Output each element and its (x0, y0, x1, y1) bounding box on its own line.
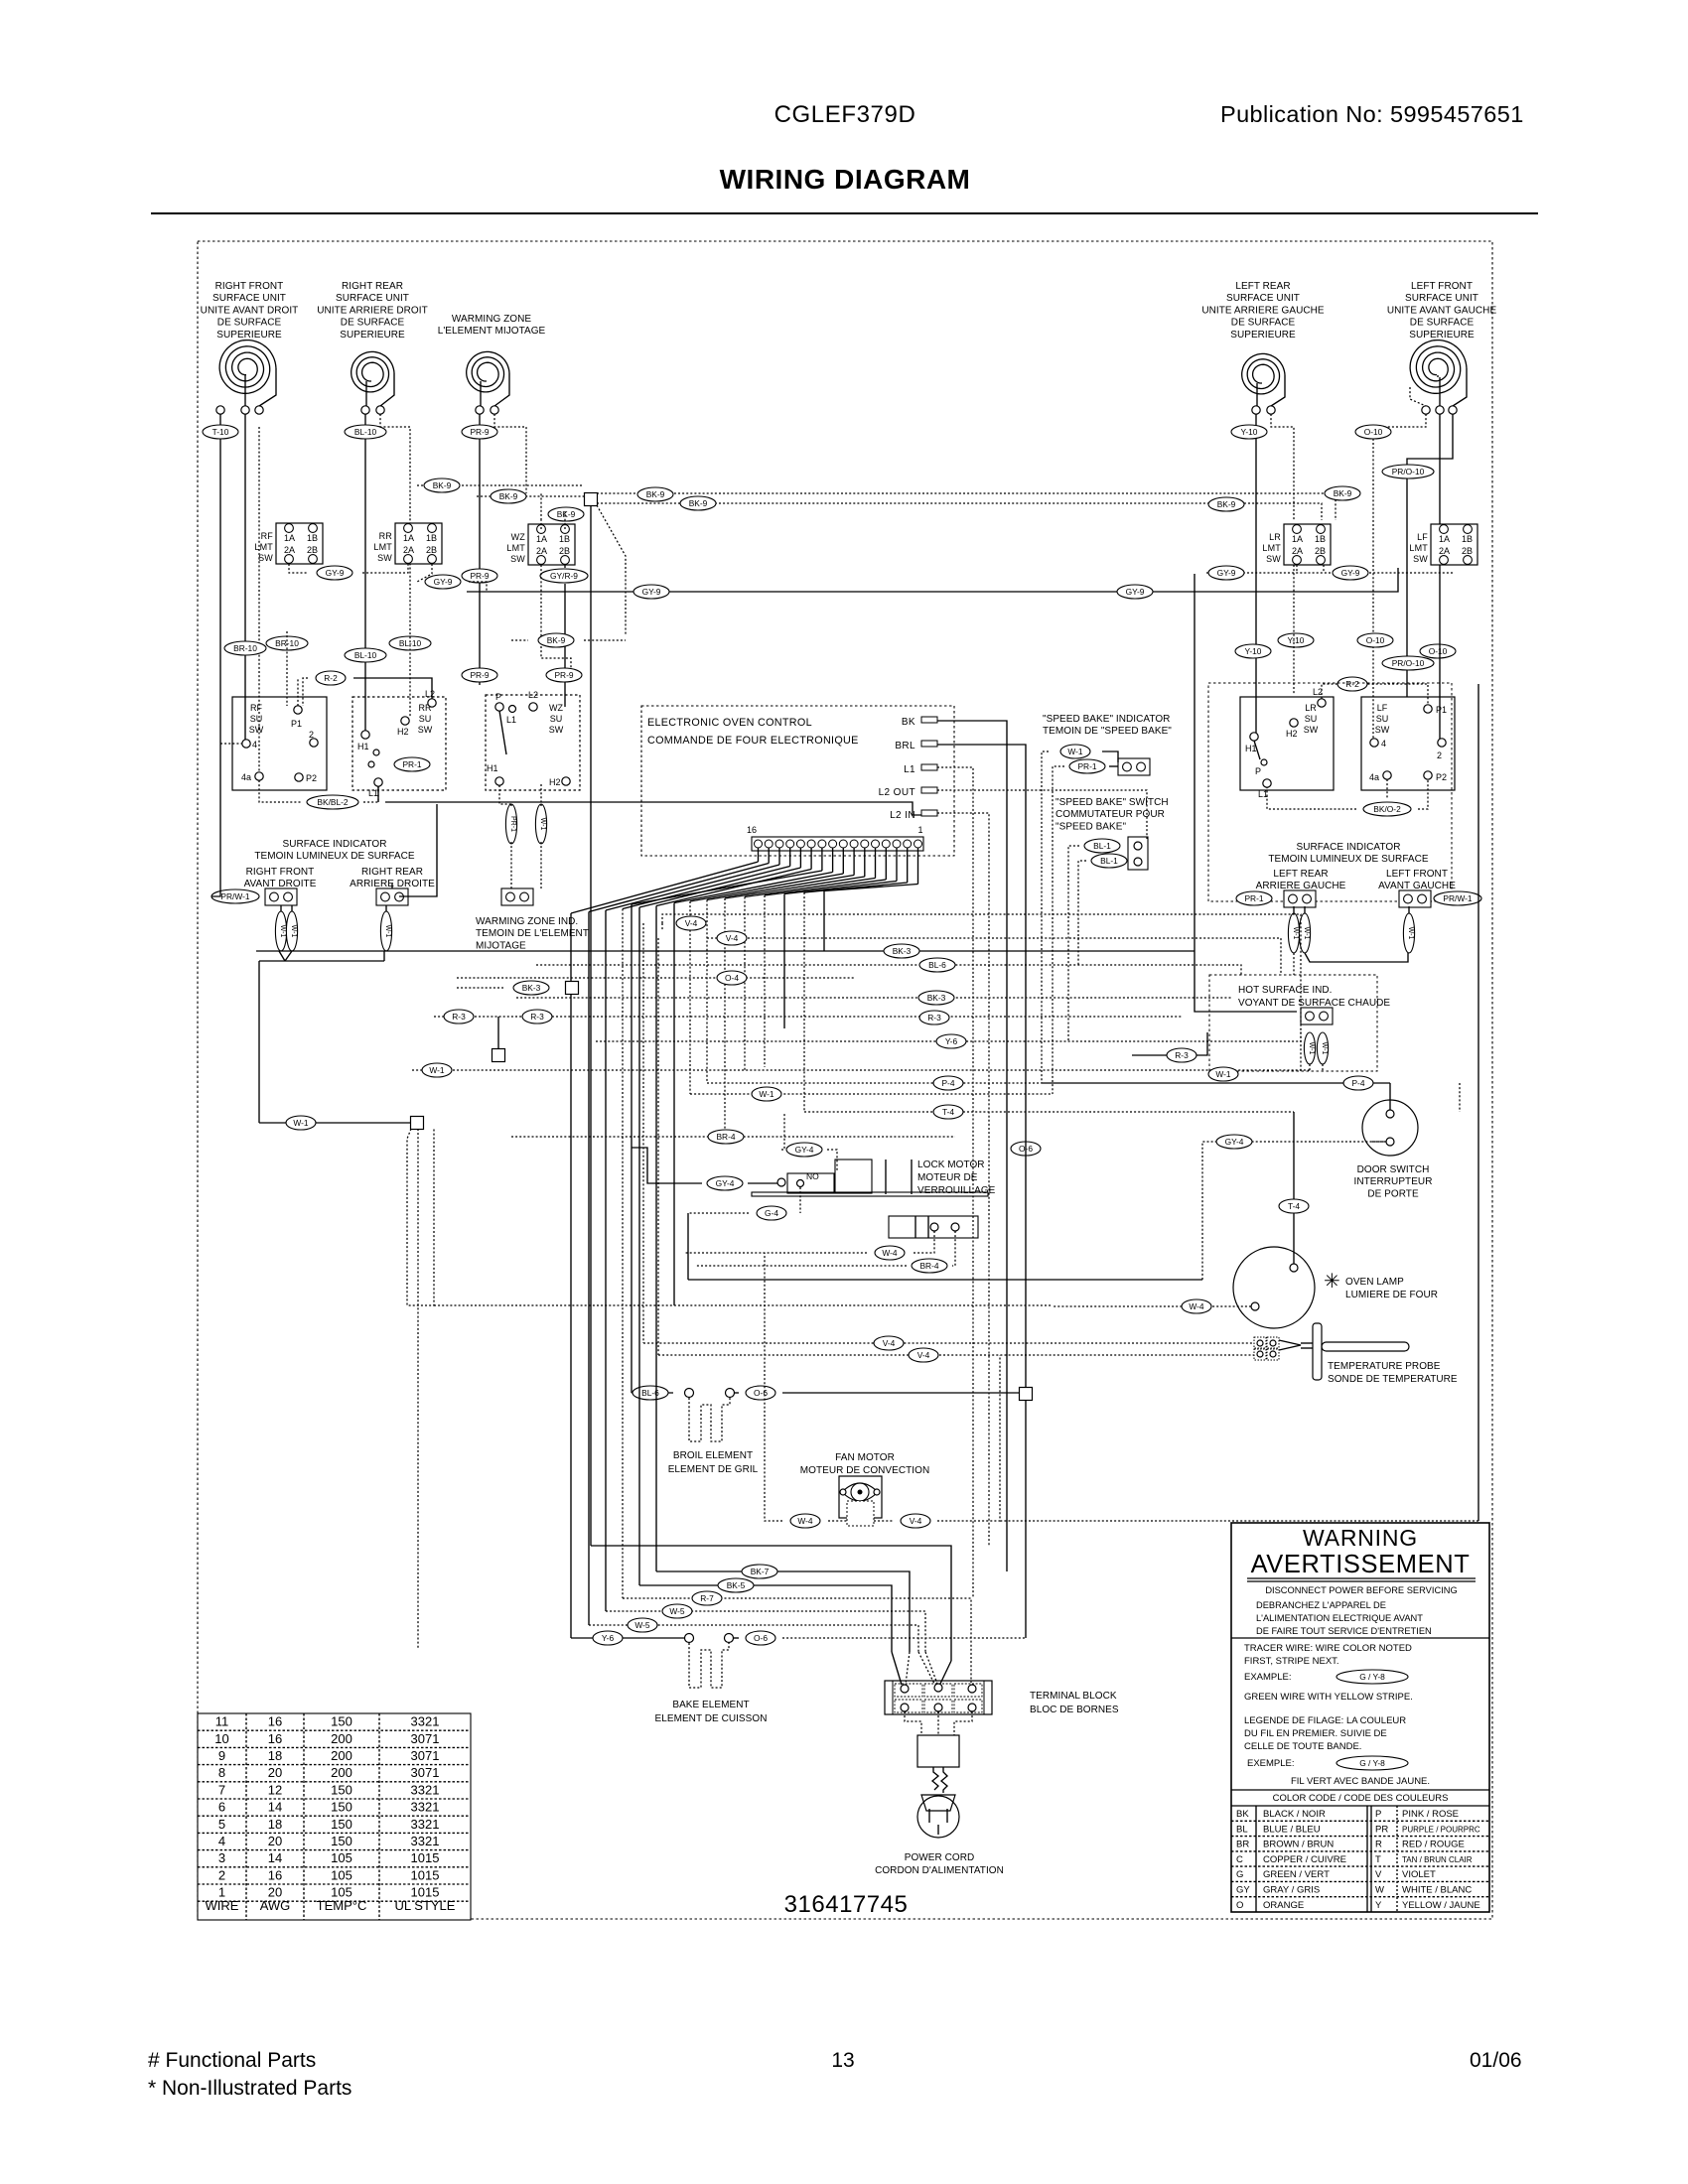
wire BRL from EOC (937, 745, 1026, 1388)
svg-text:W-1: W-1 (1308, 1042, 1315, 1055)
wire WZ 2A down (541, 565, 571, 675)
oval PR/W-1 left (211, 889, 259, 903)
svg-text:PR-1: PR-1 (1077, 761, 1096, 771)
svg-text:PR-9: PR-9 (470, 571, 489, 581)
right front surface unit coil (219, 341, 276, 394)
oval W-1 speed bake (1060, 745, 1090, 758)
speed bake wires (1042, 751, 1049, 1083)
oval R-3 b (522, 1010, 552, 1024)
svg-text:4: 4 (252, 740, 257, 750)
svg-text:Y-6: Y-6 (945, 1036, 958, 1046)
svg-text:G-4: G-4 (765, 1208, 778, 1218)
svg-text:3: 3 (218, 1850, 225, 1865)
oval BK-9 below junction (548, 507, 584, 521)
wire BK-9 WZ to RR (564, 511, 566, 529)
junction W-1 (492, 1049, 505, 1062)
svg-text:316417745: 316417745 (784, 1891, 909, 1918)
oval GY-9 right b (1333, 566, 1368, 580)
svg-text:ORANGE: ORANGE (1263, 1900, 1304, 1911)
wire W-4 bottom bus (591, 1546, 951, 1661)
svg-text:Y-10: Y-10 (1288, 635, 1305, 645)
warning box (1231, 1523, 1489, 1912)
svg-text:BK-9: BK-9 (1334, 488, 1352, 498)
svg-text:4a: 4a (241, 772, 251, 782)
svg-text:3071: 3071 (411, 1748, 440, 1763)
svg-text:T: T (1375, 1854, 1381, 1865)
wire Y-6 (596, 1028, 1301, 1041)
indicator LR lamps (1288, 913, 1299, 953)
wire W-1 solid left (259, 1122, 411, 1124)
svg-text:V-4: V-4 (883, 1338, 896, 1348)
svg-text:R: R (1375, 1840, 1382, 1850)
svg-text:H2: H2 (549, 777, 561, 787)
svg-text:150: 150 (331, 1782, 352, 1797)
svg-text:GY-9: GY-9 (1341, 568, 1360, 578)
speed bake switch box (1128, 837, 1148, 870)
right rear surface unit coil (352, 351, 394, 392)
left rear surface unit terminals (1252, 406, 1260, 414)
speed bake indicator box (1118, 758, 1150, 775)
svg-text:PR-9: PR-9 (554, 670, 573, 680)
oval Y-10 b (1278, 633, 1314, 647)
svg-text:WARNING: WARNING (1303, 1525, 1418, 1551)
svg-text:H2: H2 (397, 727, 409, 737)
wire BK-3 bus (256, 950, 1195, 952)
svg-text:WARMING ZONEL'ELEMENT MIJOTAGE: WARMING ZONEL'ELEMENT MIJOTAGE (438, 314, 546, 337)
svg-text:AWG: AWG (260, 1898, 291, 1913)
oval PR/O-10 b (1382, 656, 1434, 670)
svg-text:P1: P1 (1436, 705, 1447, 715)
wire BK-9 bus upper (417, 484, 584, 486)
svg-text:UL STYLE: UL STYLE (395, 1898, 456, 1913)
svg-text:W-1: W-1 (1407, 927, 1414, 940)
svg-text:2: 2 (1437, 751, 1442, 760)
svg-text:T-10: T-10 (212, 427, 229, 437)
wire coil RF leads (244, 375, 246, 406)
svg-text:P: P (1375, 1809, 1381, 1820)
svg-text:GREEN WIRE WITH YELLOW STRIPE.: GREEN WIRE WITH YELLOW STRIPE. (1244, 1692, 1413, 1703)
svg-text:R-2: R-2 (1345, 679, 1359, 689)
broil element (685, 1389, 694, 1398)
wire BR-4 long (511, 1136, 955, 1138)
indicator RF box (265, 888, 297, 905)
svg-text:BK-3: BK-3 (893, 946, 912, 956)
oval PR-9 mid (546, 668, 582, 682)
svg-text:BK-9: BK-9 (547, 635, 566, 645)
svg-text:BK: BK (1236, 1809, 1249, 1820)
svg-text:BK/O-2: BK/O-2 (1373, 804, 1401, 814)
svg-text:2A: 2A (536, 546, 547, 556)
svg-text:P2: P2 (1436, 772, 1447, 782)
svg-text:16: 16 (268, 1867, 282, 1882)
svg-text:200: 200 (331, 1765, 352, 1780)
hot surface ind dashed enclosure (1209, 975, 1377, 1071)
svg-text:18: 18 (268, 1817, 282, 1832)
svg-text:BR-4: BR-4 (919, 1261, 938, 1271)
svg-text:TAN / BRUN CLAIR: TAN / BRUN CLAIR (1402, 1855, 1473, 1864)
temperature probe body (1279, 1340, 1301, 1350)
svg-text:12: 12 (268, 1782, 282, 1797)
svg-text:13: 13 (831, 2049, 854, 2072)
oval R-2 right (1322, 684, 1428, 705)
oval PR/W-1 right (1434, 891, 1481, 905)
right front surface unit terminals (216, 406, 224, 414)
svg-text:P-4: P-4 (941, 1078, 954, 1088)
EOC terminal strip (752, 837, 923, 851)
oval Y-10 c (1235, 644, 1271, 658)
svg-text:2B: 2B (1462, 546, 1473, 556)
svg-text:BK/BL-2: BK/BL-2 (317, 797, 349, 807)
svg-text:TEMP°C: TEMP°C (317, 1898, 367, 1913)
svg-text:W-4: W-4 (797, 1516, 813, 1526)
svg-text:L2 IN: L2 IN (890, 810, 915, 821)
wire bundle verticals from EOC (570, 913, 572, 1638)
wire V-4 pair upper (662, 914, 1301, 1071)
svg-text:O: O (1236, 1900, 1243, 1911)
svg-text:2B: 2B (559, 546, 570, 556)
svg-text:DISCONNECT POWER BEFORE SERVIC: DISCONNECT POWER BEFORE SERVICING (1265, 1585, 1457, 1595)
svg-text:RFSUSW: RFSUSW (249, 703, 264, 735)
svg-text:L1: L1 (368, 788, 378, 798)
wire BK-5 (639, 1585, 892, 1652)
svg-text:150: 150 (331, 1714, 352, 1729)
wire W-5 a (606, 1611, 925, 1652)
surface switch RF SU SW (232, 697, 327, 790)
wire T-4 (804, 1111, 1294, 1113)
svg-text:R-3: R-3 (452, 1012, 466, 1022)
indicator RR box (376, 888, 408, 905)
junction BK-9 (585, 493, 598, 506)
svg-text:W-1: W-1 (1292, 927, 1299, 940)
svg-text:BK-9: BK-9 (1217, 499, 1236, 509)
hot surface ind box (1301, 1008, 1333, 1024)
svg-text:W-1: W-1 (759, 1089, 774, 1099)
svg-text:1015: 1015 (411, 1867, 440, 1882)
wire O-6 right (1011, 1142, 1041, 1156)
junction W-1 left (411, 1117, 424, 1130)
svg-text:BLACK / NOIR: BLACK / NOIR (1263, 1809, 1326, 1820)
svg-text:W-4: W-4 (1189, 1301, 1204, 1311)
wire V-4 b (707, 938, 1281, 975)
svg-text:GY-9: GY-9 (1217, 568, 1236, 578)
svg-text:O-10: O-10 (1429, 646, 1448, 656)
svg-text:1B: 1B (559, 534, 570, 544)
svg-text:RIGHT FRONTAVANT DROITE: RIGHT FRONTAVANT DROITE (244, 867, 317, 889)
wires surface ind right (1293, 906, 1295, 913)
oval GY-9 under RR (425, 575, 461, 589)
wire BK-9 diag (597, 505, 626, 635)
svg-text:O-10: O-10 (1364, 427, 1383, 437)
bake element (685, 1634, 694, 1643)
svg-text:2B: 2B (426, 545, 437, 555)
svg-text:H1: H1 (357, 742, 369, 751)
limit switch LF LMT SW (1409, 524, 1477, 565)
wire GY-4 to door switch (688, 1279, 1202, 1281)
wire PR/O vertical right (1459, 1083, 1461, 1112)
svg-text:BR: BR (1236, 1840, 1249, 1850)
warming zone coil (467, 351, 509, 392)
svg-text:GY-4: GY-4 (716, 1178, 735, 1188)
svg-text:20: 20 (268, 1765, 282, 1780)
wire LR right terminal down (1271, 414, 1294, 520)
hot surface lamps (1304, 1032, 1315, 1064)
svg-text:150: 150 (331, 1817, 352, 1832)
oval BK-9 left mid (538, 633, 574, 647)
wire R-3 right (1132, 1032, 1207, 1055)
svg-text:BL: BL (1236, 1824, 1248, 1835)
oval V-4 fan (901, 1514, 930, 1528)
svg-text:R-3: R-3 (1175, 1050, 1189, 1060)
oval GY-4 door (1216, 1135, 1252, 1149)
svg-text:BK: BK (902, 717, 915, 728)
svg-text:BRL: BRL (895, 741, 915, 751)
svg-text:GY-9: GY-9 (642, 587, 661, 597)
svg-text:3321: 3321 (411, 1834, 440, 1848)
wire pin4 dotted (220, 743, 242, 745)
svg-text:W-1: W-1 (279, 925, 286, 938)
oval PR-1 speed bake (1069, 759, 1105, 773)
svg-text:WIRE: WIRE (206, 1898, 239, 1913)
svg-text:GY-9: GY-9 (326, 568, 345, 578)
svg-text:PR-1: PR-1 (509, 816, 516, 832)
wire W-1 mid (690, 1093, 1053, 1095)
junction O-6 (1020, 1388, 1033, 1401)
svg-text:✳: ✳ (1324, 1271, 1340, 1293)
oval O-10 c (1420, 644, 1456, 658)
wire V-4 temp probe a (642, 923, 644, 1343)
svg-text:1A: 1A (403, 533, 414, 543)
wire RF right to 4a (258, 427, 260, 772)
svg-text:G / Y-8: G / Y-8 (1359, 1672, 1385, 1682)
wire GY-9 main bus (467, 568, 1398, 592)
surface indicator right dashed enclosure (1208, 683, 1452, 901)
svg-text:G / Y-8: G / Y-8 (1359, 1758, 1385, 1768)
svg-text:1: 1 (917, 825, 922, 835)
svg-text:1B: 1B (307, 533, 318, 543)
wire W-5 b (589, 1625, 918, 1652)
wire GY-4 upper (781, 1114, 784, 1150)
svg-text:W-5: W-5 (669, 1606, 685, 1616)
wire P1 up (297, 678, 299, 706)
wire WZ switch blade (499, 711, 506, 754)
outer dashed frame (198, 241, 1492, 1919)
svg-text:2: 2 (309, 730, 314, 740)
wire gauge table (198, 1713, 471, 1920)
indicator RR lamp (380, 911, 391, 951)
svg-text:PR/W-1: PR/W-1 (220, 891, 250, 901)
wire L1 from EOC (937, 767, 973, 1597)
door switch (1362, 1100, 1418, 1156)
wire L2 OUT from EOC (937, 790, 1147, 839)
svg-text:P: P (495, 692, 501, 702)
wire GY-9 down to hot surface ind (1195, 574, 1297, 1012)
svg-text:GRAY / GRIS: GRAY / GRIS (1263, 1885, 1320, 1896)
wire P-4 (707, 1082, 1042, 1084)
wire PR-9 from WZ unit (479, 414, 481, 685)
svg-text:# Functional Parts: # Functional Parts (148, 2049, 316, 2072)
svg-text:* Non-Illustrated Parts: * Non-Illustrated Parts (148, 2077, 352, 2100)
svg-text:GREEN / VERT: GREEN / VERT (1263, 1869, 1330, 1880)
svg-text:W-1: W-1 (1067, 747, 1083, 756)
svg-text:BK-9: BK-9 (646, 489, 665, 499)
svg-text:2A: 2A (403, 545, 414, 555)
wire oven lamp top T-4 (1293, 1112, 1295, 1264)
svg-text:GY-9: GY-9 (434, 577, 453, 587)
oval W-4 fan (790, 1514, 820, 1528)
svg-text:LRSUSW: LRSUSW (1304, 703, 1319, 735)
svg-text:14: 14 (268, 1800, 282, 1815)
wire BK-3 lower (516, 997, 1231, 999)
oval BK-9 2 (477, 495, 584, 497)
svg-text:3321: 3321 (411, 1817, 440, 1832)
wire BK-9 junction down (590, 506, 592, 1546)
svg-text:8: 8 (218, 1765, 225, 1780)
svg-text:T-4: T-4 (1288, 1201, 1300, 1211)
svg-text:BL-10: BL-10 (354, 427, 377, 437)
oval BR-10 a (224, 641, 266, 655)
wire O-6 broil (746, 1386, 775, 1400)
svg-text:W-1: W-1 (429, 1065, 445, 1075)
wire BK/O-2 (1363, 802, 1411, 816)
wire GY-9 right dashed (1206, 572, 1453, 574)
wire O-4 (457, 977, 854, 979)
svg-text:R-3: R-3 (927, 1013, 941, 1023)
wire W-1 long (412, 1069, 1310, 1071)
warming zone terminals (476, 406, 484, 414)
power cord plug (921, 1795, 955, 1811)
svg-text:L2: L2 (528, 690, 538, 700)
wire BL-10 from RR unit (364, 414, 366, 731)
svg-text:VIOLET: VIOLET (1402, 1869, 1436, 1880)
svg-text:O-6: O-6 (754, 1388, 768, 1398)
wire LF middle terminal down (1439, 414, 1441, 739)
svg-text:16: 16 (268, 1731, 282, 1746)
lock motor body (889, 1216, 978, 1238)
svg-text:1B: 1B (426, 533, 437, 543)
svg-text:2A: 2A (1439, 546, 1450, 556)
svg-text:O-6: O-6 (754, 1633, 768, 1643)
surface switch LR SU SW (1240, 697, 1334, 790)
svg-text:PR-1: PR-1 (1244, 893, 1263, 903)
svg-text:P-4: P-4 (1351, 1078, 1364, 1088)
oval GY-4 upper (786, 1143, 822, 1157)
svg-text:01/06: 01/06 (1470, 2049, 1522, 2072)
svg-text:P2: P2 (306, 773, 317, 783)
svg-text:O-4: O-4 (725, 973, 739, 983)
svg-text:105: 105 (331, 1867, 352, 1882)
svg-text:W: W (1375, 1885, 1384, 1896)
oval BK-9 right a (1325, 486, 1360, 500)
svg-text:BK-3: BK-3 (522, 983, 541, 993)
svg-text:WIRING DIAGRAM: WIRING DIAGRAM (720, 164, 971, 195)
svg-text:PURPLE / POURPRC: PURPLE / POURPRC (1402, 1825, 1480, 1834)
wire RR right terminal down (380, 414, 410, 717)
power cord connector (905, 1711, 921, 1735)
svg-text:3321: 3321 (411, 1782, 440, 1797)
temperature probe connector (1254, 1337, 1266, 1348)
svg-text:AVERTISSEMENT: AVERTISSEMENT (1251, 1551, 1471, 1578)
svg-text:PINK / ROSE: PINK / ROSE (1402, 1809, 1459, 1820)
svg-text:W-1: W-1 (1303, 927, 1310, 940)
hot surface wires (1309, 1064, 1311, 1072)
svg-text:H2: H2 (1286, 729, 1298, 739)
svg-text:GY-9: GY-9 (1126, 587, 1145, 597)
indicator LR box (1284, 890, 1316, 907)
svg-text:BK-9: BK-9 (499, 491, 518, 501)
svg-text:COLOR CODE / CODE DES COULEU: COLOR CODE / CODE DES COULEURS (1273, 1793, 1449, 1804)
wire PR/O-10 from LF right terminal (1407, 414, 1453, 697)
svg-text:EXAMPLE:: EXAMPLE: (1244, 1672, 1292, 1683)
svg-text:R-2: R-2 (324, 673, 338, 683)
svg-text:7: 7 (218, 1782, 225, 1797)
svg-text:Y: Y (1375, 1900, 1382, 1911)
oval GY-9 under RF (317, 566, 352, 580)
wire BK-7 (656, 1571, 910, 1652)
oval PR-1 RR (394, 757, 430, 771)
warming zone lamps (505, 804, 516, 844)
svg-text:W-1: W-1 (290, 925, 297, 938)
left rear surface unit coil (1242, 353, 1285, 394)
svg-text:GY/R-9: GY/R-9 (550, 571, 578, 581)
svg-text:EXEMPLE:: EXEMPLE: (1247, 1758, 1295, 1769)
svg-text:2A: 2A (284, 545, 295, 555)
svg-text:150: 150 (331, 1800, 352, 1815)
svg-text:BROWN / BRUN: BROWN / BRUN (1263, 1840, 1334, 1850)
wire Y-6 bake (571, 1637, 684, 1639)
wire W-4 lock (913, 1231, 934, 1253)
svg-text:1A: 1A (1439, 534, 1450, 544)
oval BL-1 b (1091, 854, 1127, 868)
surface switch RR SU SW (352, 697, 446, 790)
limit switch WZ LMT SW (506, 524, 575, 565)
wire RF center to RF SU SW pin 4 (244, 414, 246, 740)
oval BR-10 b (266, 636, 308, 650)
svg-text:Y-10: Y-10 (1241, 427, 1258, 437)
wire L2 IN from EOC (937, 813, 989, 1546)
svg-text:2: 2 (218, 1867, 225, 1882)
indicator LF box (1399, 890, 1431, 907)
svg-text:V-4: V-4 (910, 1516, 922, 1526)
svg-text:PR: PR (1375, 1824, 1388, 1835)
oval R-3 c (919, 1011, 949, 1024)
wire R-7 (623, 1598, 971, 1683)
svg-text:BK-9: BK-9 (557, 509, 576, 519)
svg-text:WHITE / BLANC: WHITE / BLANC (1402, 1885, 1472, 1896)
wire dotted 1315 (434, 1304, 1053, 1306)
wire O-6 bake (746, 1631, 775, 1645)
svg-text:BK-9: BK-9 (689, 498, 708, 508)
svg-text:1015: 1015 (411, 1850, 440, 1865)
wire G-4 (799, 1187, 801, 1213)
svg-text:BR-10: BR-10 (233, 643, 257, 653)
svg-text:200: 200 (331, 1748, 352, 1763)
svg-text:BL-1: BL-1 (1100, 856, 1118, 866)
svg-text:W-1: W-1 (384, 925, 391, 938)
wire BK-9 bus to right (597, 493, 1336, 520)
wire GY/R-9 under WZ (540, 569, 588, 583)
limit switch RR LMT SW (373, 523, 442, 564)
svg-text:Y-6: Y-6 (602, 1633, 615, 1643)
svg-text:RRSUSW: RRSUSW (418, 703, 433, 735)
wire oven lamp left W-4 (1053, 1305, 1251, 1307)
svg-text:2A: 2A (1292, 546, 1303, 556)
oval GY-4 lock (707, 1176, 743, 1190)
fan motor symbol (839, 1476, 882, 1518)
svg-text:150: 150 (331, 1834, 352, 1848)
svg-text:R-7: R-7 (700, 1593, 714, 1603)
oval BL-1 a (1084, 839, 1120, 853)
svg-text:H1: H1 (487, 763, 498, 773)
